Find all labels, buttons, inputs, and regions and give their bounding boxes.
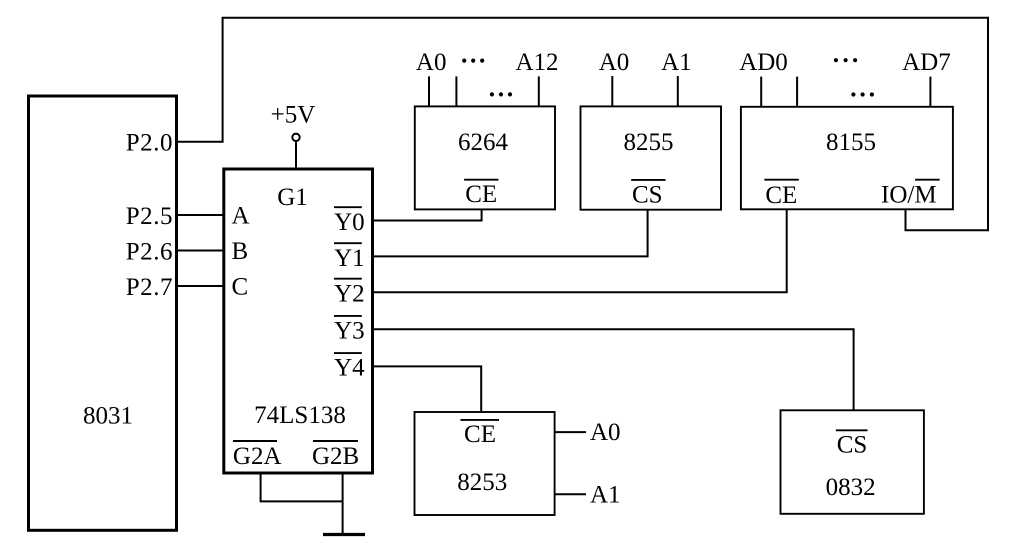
svg-text:+5V: +5V	[271, 102, 316, 129]
ground	[323, 533, 365, 536]
bus pin AD0 of 8155	[760, 77, 762, 107]
svg-text:IO/M: IO/M	[881, 182, 937, 209]
svg-text:P2.7: P2.7	[126, 274, 173, 301]
+5V terminal circle	[292, 134, 299, 141]
svg-text:G2A: G2A	[233, 443, 282, 470]
svg-text:CE: CE	[465, 181, 497, 208]
wire P2.5 to A	[177, 214, 224, 216]
output pin label Y0 (active low)	[334, 207, 365, 236]
wire P2.6 to B	[177, 250, 224, 252]
wire G2B to ground	[342, 473, 344, 535]
wire Y4 to 8253 CE	[373, 366, 482, 412]
wire Y0 to 6264 CE	[373, 210, 482, 221]
svg-text:AD7: AD7	[902, 49, 951, 76]
address pin A12 of 6264	[538, 76, 540, 106]
svg-text:Y4: Y4	[334, 355, 365, 382]
svg-text:Y0: Y0	[334, 209, 365, 236]
pin wire A1 of 8253	[555, 493, 586, 495]
svg-text:A: A	[232, 203, 250, 230]
bus ellipsis inner (8155)	[851, 92, 874, 96]
svg-text:G1: G1	[277, 184, 308, 211]
svg-text:CE: CE	[464, 421, 496, 448]
svg-text:B: B	[232, 238, 249, 265]
IC U7 0832	[781, 410, 924, 514]
svg-text:8155: 8155	[826, 129, 876, 156]
wire +5V to G1	[295, 141, 297, 170]
IC U6 8253	[415, 412, 555, 515]
svg-text:P2.0: P2.0	[126, 129, 173, 156]
address pin (middle) of 6264	[455, 76, 457, 106]
address pin A0 of 6264	[428, 76, 430, 106]
wire P2.7 to C	[177, 285, 224, 287]
pin label CE 8155 (active low)	[764, 180, 798, 209]
pin label CE 6264 (active low)	[464, 180, 498, 208]
IC U2 74LS138	[224, 169, 373, 473]
bus ellipsis inner (6264)	[490, 92, 512, 96]
output pin label Y1 (active low)	[334, 243, 365, 272]
svg-text:Y2: Y2	[334, 280, 365, 307]
svg-text:Y1: Y1	[334, 245, 365, 272]
svg-text:0832: 0832	[826, 474, 876, 501]
svg-text:Y3: Y3	[334, 318, 365, 345]
pin label CE 8253 (active low)	[461, 420, 500, 448]
svg-text:A0: A0	[590, 419, 621, 446]
wire P2.0 to 8155 IO/M (top bus)	[177, 18, 989, 230]
svg-text:AD0: AD0	[739, 49, 788, 76]
svg-text:6264: 6264	[458, 129, 509, 156]
wire Y2 to 8155 CE	[373, 209, 787, 292]
svg-text:8253: 8253	[457, 469, 507, 496]
svg-text:G2B: G2B	[312, 443, 359, 470]
bus ellipsis top (8155)	[834, 58, 857, 62]
svg-text:A0: A0	[599, 49, 630, 76]
svg-text:C: C	[232, 274, 249, 301]
svg-text:A1: A1	[590, 482, 621, 509]
svg-text:A1: A1	[661, 49, 692, 76]
IC U5 8155	[741, 107, 953, 210]
IC U4 8255	[581, 106, 722, 209]
IC U3 6264	[415, 106, 555, 209]
svg-text:CS: CS	[632, 182, 663, 209]
svg-text:P2.5: P2.5	[126, 203, 173, 230]
pin label IO/M (M active low)	[881, 180, 940, 209]
wire G2A to G2B junction	[261, 473, 343, 501]
IC U1 8031	[29, 96, 177, 530]
svg-text:8255: 8255	[624, 129, 674, 156]
svg-text:CS: CS	[837, 432, 868, 459]
wire Y3 to 0832 CS	[373, 329, 854, 410]
wire Y1 to 8255 CS	[373, 210, 648, 257]
svg-text:P2.6: P2.6	[126, 238, 173, 265]
svg-text:8031: 8031	[83, 403, 133, 430]
output pin label Y2 (active low)	[334, 279, 365, 308]
bus pin (middle) of 8155	[796, 77, 798, 107]
address pin A0 of 8255	[611, 76, 613, 106]
pin label CS 8255 (active low)	[631, 180, 665, 209]
svg-text:A12: A12	[515, 49, 558, 76]
output pin label Y3 (active low)	[334, 316, 365, 345]
svg-text:CE: CE	[765, 182, 797, 209]
svg-text:74LS138: 74LS138	[254, 402, 346, 429]
pin wire A0 of 8253	[555, 431, 586, 433]
bus pin AD7 of 8155	[929, 77, 931, 107]
output pin label Y4 (active low)	[334, 353, 365, 382]
pin label G2A (active low)	[233, 441, 282, 470]
pin label CS 0832 (active low)	[836, 430, 868, 458]
svg-text:A0: A0	[416, 49, 447, 76]
address pin A1 of 8255	[677, 76, 679, 106]
pin label G2B (active low)	[312, 441, 359, 470]
bus ellipsis top (6264)	[462, 59, 484, 63]
